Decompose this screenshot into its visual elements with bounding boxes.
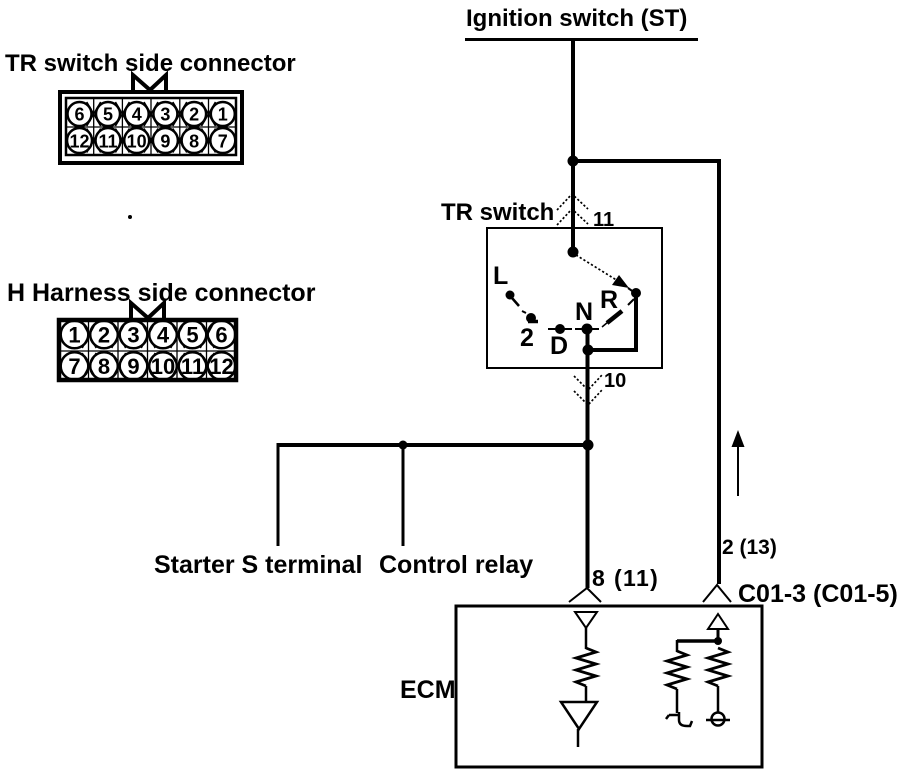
stray dot artifact bbox=[128, 215, 132, 219]
svg-text:1: 1 bbox=[68, 323, 80, 348]
svg-text:Starter S terminal: Starter S terminal bbox=[154, 551, 362, 579]
H connector pin numbers bbox=[68, 323, 233, 380]
TR connector bowtie marks bbox=[87, 102, 216, 153]
connector symbol: pin 11 chevrons bbox=[557, 194, 588, 225]
svg-text:5: 5 bbox=[186, 323, 198, 348]
svg-text:Ignition switch (ST): Ignition switch (ST) bbox=[466, 5, 687, 32]
ignition switch bus underline bbox=[465, 38, 698, 41]
svg-text:7: 7 bbox=[68, 354, 80, 379]
connector entry chevron: ECM C01-3 bbox=[703, 585, 731, 602]
svg-text:9: 9 bbox=[127, 354, 139, 379]
TR connector grid bbox=[66, 98, 236, 155]
svg-text:2 (13): 2 (13) bbox=[722, 536, 777, 559]
node: TR switch common bbox=[568, 247, 579, 258]
ECM box bbox=[456, 606, 762, 767]
wire bbox=[676, 689, 679, 713]
svg-text:10: 10 bbox=[151, 354, 175, 379]
hook terminator bbox=[666, 712, 692, 726]
wire: ignition feed vertical bbox=[571, 40, 575, 163]
wire: R contact to N output bbox=[588, 293, 636, 350]
svg-text:ECM: ECM bbox=[400, 676, 456, 704]
node: junction ignition/branch bbox=[568, 156, 579, 167]
svg-text:8: 8 bbox=[189, 132, 199, 152]
svg-text:7: 7 bbox=[218, 132, 228, 152]
wire bbox=[676, 640, 679, 652]
resistor R-b bbox=[708, 648, 728, 686]
H connector cavities bbox=[61, 321, 236, 380]
svg-text:9: 9 bbox=[160, 132, 170, 152]
switch wiper toward R bbox=[576, 255, 618, 281]
wire: drop to starter S terminal bbox=[277, 443, 280, 546]
wire: horizontal branch bbox=[278, 443, 588, 447]
resistor R-left (pin 8 pull) bbox=[576, 648, 596, 686]
wire bbox=[717, 629, 720, 643]
H connector shell bbox=[59, 320, 236, 380]
svg-text:2: 2 bbox=[98, 323, 110, 348]
wire: N contact down through pin 10 bbox=[586, 329, 590, 588]
svg-text:R: R bbox=[600, 286, 618, 314]
svg-text:D: D bbox=[550, 332, 568, 360]
wire bbox=[717, 686, 720, 713]
svg-text:4: 4 bbox=[157, 323, 170, 348]
svg-text:C01-3 (C01-5): C01-3 (C01-5) bbox=[738, 580, 898, 608]
svg-text:11: 11 bbox=[98, 132, 117, 152]
svg-text:12: 12 bbox=[69, 132, 89, 152]
svg-text:10: 10 bbox=[127, 132, 147, 152]
svg-text:2: 2 bbox=[189, 105, 199, 125]
node: junction branch to starter/relay bbox=[583, 440, 594, 451]
TR connector outer shell bbox=[60, 92, 242, 163]
H connector bowtie marks bbox=[82, 322, 214, 379]
resistor R-a bbox=[667, 651, 687, 689]
wire bbox=[585, 628, 588, 649]
svg-text:N: N bbox=[575, 298, 593, 326]
node: junction control relay bbox=[399, 441, 408, 450]
svg-text:5: 5 bbox=[103, 105, 113, 125]
small triangle up (C01-3 input) bbox=[708, 614, 728, 629]
node: junction resistor pair bbox=[714, 637, 722, 645]
svg-text:4: 4 bbox=[132, 105, 142, 125]
wire: horizontal to left resistor bbox=[677, 639, 718, 643]
TR connector inner shell bbox=[66, 98, 236, 155]
svg-text:TR switch side connector: TR switch side connector bbox=[5, 50, 296, 77]
TR connector pin numbers bbox=[69, 105, 227, 152]
node: junction below N bbox=[583, 345, 594, 356]
wire: drop to control relay bbox=[402, 445, 405, 546]
wire: horizontal to right branch bbox=[573, 159, 719, 163]
wire tail bbox=[577, 729, 580, 747]
contact D bbox=[548, 328, 572, 330]
connector entry chevron: ECM pin 8 bbox=[569, 588, 601, 602]
svg-text:Control relay: Control relay bbox=[379, 551, 533, 579]
contact N bbox=[575, 328, 599, 330]
TR connector cavities row 1 bbox=[67, 102, 235, 153]
svg-text:10: 10 bbox=[604, 370, 626, 392]
big triangle down (comparator) bbox=[561, 702, 597, 729]
svg-text:8 (11): 8 (11) bbox=[592, 565, 659, 591]
svg-text:1: 1 bbox=[218, 105, 228, 125]
svg-text:8: 8 bbox=[98, 354, 110, 379]
H connector keying notch bbox=[131, 303, 164, 319]
svg-text:L: L bbox=[493, 262, 508, 290]
connector symbol: pin 10 chevrons bbox=[574, 375, 602, 405]
svg-text:6: 6 bbox=[215, 323, 227, 348]
H connector grid bbox=[61, 322, 235, 378]
flow arrow up bbox=[737, 446, 739, 496]
terminal circle bbox=[712, 713, 725, 726]
svg-text:11: 11 bbox=[181, 354, 204, 379]
wire: right branch vertical to ECM C01-3 bbox=[717, 159, 721, 584]
TR connector keying notch bbox=[133, 75, 166, 91]
svg-text:3: 3 bbox=[160, 105, 170, 125]
wire: vertical into TR switch pin 11 bbox=[571, 161, 575, 252]
svg-text:3: 3 bbox=[127, 323, 139, 348]
svg-text:12: 12 bbox=[209, 354, 233, 379]
TR switch box bbox=[487, 228, 662, 368]
svg-text:6: 6 bbox=[74, 105, 84, 125]
small triangle down (pin 8 input) bbox=[575, 612, 597, 628]
wire bbox=[585, 686, 588, 703]
svg-text:TR switch: TR switch bbox=[441, 199, 554, 226]
contact 2 bbox=[522, 311, 526, 313]
svg-text:2: 2 bbox=[520, 324, 534, 352]
